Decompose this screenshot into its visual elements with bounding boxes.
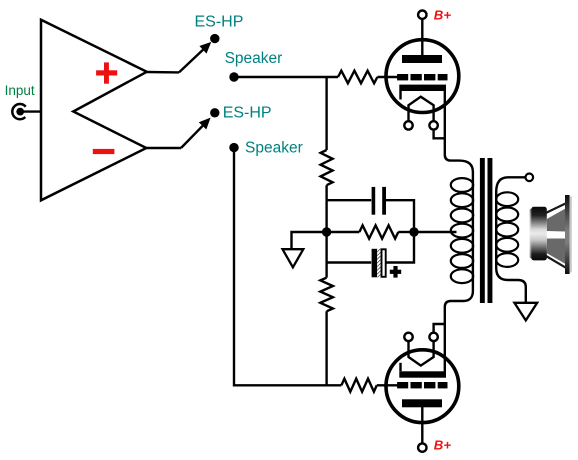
svg-text:ES-HP: ES-HP — [195, 14, 244, 31]
wire: divider chain vertical lower — [325, 311, 327, 385]
input RCA jack — [12, 104, 25, 119]
transformer secondary loops — [496, 192, 518, 267]
svg-text:B+: B+ — [434, 438, 452, 453]
resistor R4 (bottom grid stopper) — [341, 379, 376, 392]
transformer primary loops — [451, 178, 473, 283]
amplifier triangle (driver amp with + and - outputs) — [41, 20, 147, 201]
ground symbol (right, under transformer) — [514, 303, 537, 321]
electrolytic capacitor branch (bottom) — [327, 232, 414, 278]
wire: V1 cathode to transformer primary top, primary winding line, to V2 cathode — [445, 89, 473, 373]
wire: bottom speaker contact down and across to R4 — [234, 148, 341, 386]
node: top ES-HP contact — [210, 34, 219, 43]
plus polarity symbol — [96, 62, 117, 83]
wire: + output to top switch pivot — [147, 71, 179, 74]
wire: R4 to tube V2 grid — [377, 384, 398, 386]
transformer core — [480, 158, 493, 303]
resistor divider upper — [321, 150, 333, 185]
resistor divider lower — [320, 278, 333, 312]
film capacitor branch (top) — [327, 187, 414, 232]
svg-text:Speaker: Speaker — [225, 50, 283, 67]
B+ terminal (bottom) — [418, 443, 426, 451]
tube V1 (top output tube) — [386, 19, 459, 130]
bottom switch arm with arrowhead — [181, 118, 211, 148]
wire: top speaker contact to grid resistor R1 — [234, 76, 338, 78]
secondary output terminal — [526, 174, 534, 182]
junction node right — [409, 227, 418, 236]
transformer secondary winding line — [496, 177, 526, 302]
wire: V1 heater pin jumper — [434, 130, 445, 139]
node: bottom Speaker contact — [229, 143, 238, 152]
speaker icon — [530, 195, 572, 274]
wire: ground stub from left junction — [292, 232, 327, 249]
wire: input jack to amp — [20, 110, 40, 112]
junction node left — [322, 227, 331, 236]
minus polarity symbol — [93, 149, 115, 154]
tube V2 (bottom output tube) — [386, 333, 459, 444]
node: top Speaker contact — [229, 72, 238, 81]
wire: R1 to tube V1 grid — [377, 76, 397, 78]
wire: - output to bottom switch pivot — [146, 147, 181, 149]
resistor feedback (middle horizontal) — [327, 225, 414, 238]
node: bottom ES-HP contact — [210, 108, 219, 117]
ground symbol (left) — [283, 249, 304, 267]
svg-text:B+: B+ — [434, 7, 452, 22]
wire: divider middle vertical — [325, 185, 327, 277]
svg-text:Input: Input — [5, 83, 35, 98]
resistor R1 (top grid stopper) — [338, 71, 377, 84]
wire: right junction to transformer center tap — [414, 231, 457, 233]
B+ terminal (top) — [418, 11, 426, 19]
top switch arm with arrowhead — [179, 42, 211, 73]
wire: V2 heater pin jumper — [434, 324, 445, 333]
wire: divider chain vertical upper — [325, 77, 327, 150]
svg-text:ES-HP: ES-HP — [223, 105, 272, 122]
svg-text:Speaker: Speaker — [245, 140, 303, 157]
